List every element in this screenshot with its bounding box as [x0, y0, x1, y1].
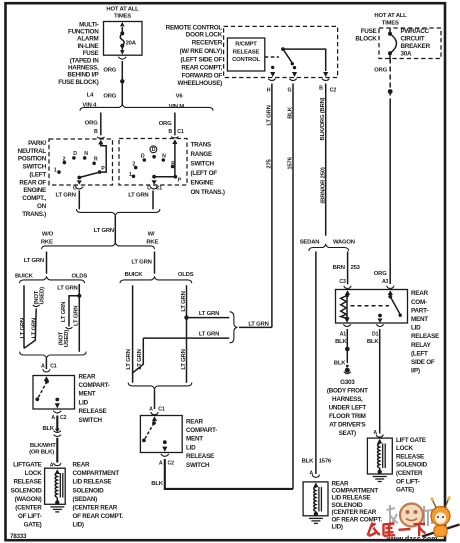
svg-text:W/O: W/O	[42, 232, 54, 238]
svg-text:REAR OF: REAR OF	[19, 179, 46, 186]
svg-text:BLK/ORG (BRN): BLK/ORG (BRN)	[320, 97, 326, 140]
svg-text:L4: L4	[87, 92, 94, 98]
svg-text:FLOOR TRIM: FLOOR TRIM	[329, 413, 366, 420]
TRS switch label	[191, 142, 225, 197]
svg-text:ORG: ORG	[374, 68, 387, 74]
split brace SEDAN/WAGON	[309, 245, 349, 251]
park/neutral position switch box	[49, 139, 113, 185]
svg-text:B: B	[94, 129, 98, 135]
svg-text:TRANS: TRANS	[191, 142, 211, 149]
svg-text:253: 253	[351, 265, 361, 271]
left release switch label	[79, 373, 110, 424]
svg-text:BLK: BLK	[334, 360, 346, 366]
svg-text:BLOCK: BLOCK	[355, 35, 377, 42]
fuse F1 20A	[120, 27, 137, 51]
svg-text:LID): LID)	[73, 522, 84, 529]
wire LT GRN (W/ RKE branch)	[131, 252, 154, 274]
svg-text:FUSE BLOCK): FUSE BLOCK)	[58, 79, 98, 86]
receiver pin connectors	[267, 79, 337, 94]
svg-text:LT GRN: LT GRN	[56, 192, 76, 198]
node HOT AT ALL TIMES (left)	[106, 7, 139, 20]
rear compartment lid release switch box (middle)	[140, 416, 182, 453]
svg-text:SOLENOID: SOLENOID	[396, 462, 428, 469]
ground splice G303	[327, 368, 368, 438]
wire LT GRN olds (middle)	[181, 285, 189, 383]
svg-text:REAR: REAR	[79, 373, 97, 380]
wire LT GRN from TRS	[128, 191, 153, 210]
svg-text:MENT: MENT	[186, 436, 203, 443]
svg-text:30A: 30A	[401, 51, 413, 58]
svg-text:C2: C2	[60, 415, 67, 421]
svg-text:SWITCH: SWITCH	[79, 417, 103, 424]
svg-text:(CENTER REAR: (CENTER REAR	[73, 505, 118, 512]
ground (bottom solenoid)	[309, 518, 323, 523]
svg-text:C2: C2	[330, 87, 337, 93]
pin C3 entry (relay)	[344, 286, 351, 295]
svg-text:BUICK: BUICK	[15, 274, 34, 280]
svg-text:D: D	[141, 154, 145, 160]
svg-text:MENT: MENT	[411, 316, 428, 323]
svg-text:(SEDAN): (SEDAN)	[73, 496, 98, 503]
svg-text:LT GRN: LT GRN	[20, 318, 26, 338]
svg-text:LT GRN: LT GRN	[94, 228, 114, 234]
svg-text:ORG: ORG	[103, 67, 116, 73]
svg-text:BLK/WHT: BLK/WHT	[30, 443, 56, 449]
svg-text:C1: C1	[50, 364, 57, 370]
svg-text:MULTI-: MULTI-	[79, 21, 99, 28]
ground (left solenoid)	[50, 507, 64, 512]
svg-text:RELEASE: RELEASE	[411, 333, 439, 340]
svg-text:V6: V6	[176, 94, 184, 100]
wire ORG to TRS switch	[159, 113, 184, 136]
merge brace to release switch (middle)	[128, 383, 192, 389]
svg-text:ORG: ORG	[374, 271, 387, 277]
svg-text:N: N	[162, 154, 166, 160]
svg-text:C3: C3	[339, 279, 346, 285]
relay label	[411, 290, 439, 374]
svg-text:TRANS.): TRANS.)	[22, 211, 46, 218]
svg-text:OF REAR COMPT.: OF REAR COMPT.	[332, 516, 383, 523]
node W/ RKE	[146, 232, 158, 246]
svg-text:2: 2	[63, 156, 66, 162]
svg-text:(W/ RKE ONLY): (W/ RKE ONLY)	[180, 48, 222, 55]
svg-text:1576: 1576	[319, 459, 332, 465]
pin A (liftgate solenoid)	[373, 430, 383, 444]
svg-text:COMPARTMENT: COMPARTMENT	[332, 488, 379, 495]
svg-text:RELEASE: RELEASE	[14, 479, 42, 486]
wire BLK (middle) to 1576	[151, 459, 293, 489]
solenoid coil (bottom)	[314, 487, 322, 516]
solenoid coil (left)	[55, 473, 63, 505]
lift gate lock release solenoid box	[367, 438, 392, 474]
svg-text:R: R	[94, 157, 98, 163]
wire LT GRN (W/O RKE branch)	[24, 252, 47, 274]
svg-text:FORWARD OF: FORWARD OF	[182, 72, 223, 79]
arrow into fuse box top	[120, 22, 125, 26]
wire inside PNP to P contact	[101, 143, 106, 172]
svg-text:C2: C2	[168, 460, 175, 466]
svg-text:OLDS: OLDS	[72, 274, 88, 280]
svg-text:A1: A1	[340, 331, 347, 337]
watermark stamp (gray characters, drawn as strokes)	[387, 505, 433, 526]
svg-text:REMOTE CONTROL: REMOTE CONTROL	[166, 25, 223, 32]
svg-text:A: A	[51, 415, 55, 421]
svg-text:C1: C1	[177, 129, 184, 135]
svg-text:A: A	[149, 407, 153, 413]
wire LT GRN horizontal lower	[143, 332, 229, 339]
svg-text:ORG: ORG	[103, 94, 116, 100]
watermark red characters (drawn as strokes)	[368, 523, 426, 537]
merge brace of two LT GRN wires	[76, 209, 159, 215]
svg-text:C: C	[147, 185, 151, 191]
node HOT AT ALL TIMES (right)	[374, 13, 407, 26]
svg-text:POSITION: POSITION	[18, 156, 47, 163]
svg-text:AT DRIVER'S: AT DRIVER'S	[329, 422, 365, 429]
split brace L4/V6	[80, 104, 213, 110]
svg-text:B: B	[168, 129, 172, 135]
svg-text:RANGE: RANGE	[191, 151, 213, 158]
wire LT GRN combined	[94, 216, 116, 243]
svg-text:CONTROL: CONTROL	[232, 57, 260, 63]
rear compartment lid release switch box (left)	[33, 376, 75, 410]
svg-text:RKE: RKE	[41, 239, 53, 245]
wire BLK from A1 to ground splice	[334, 329, 350, 367]
rear compartment lid release relay box	[336, 290, 408, 324]
svg-text:C1: C1	[158, 407, 165, 413]
wire ORG dashed from breaker	[374, 59, 393, 285]
svg-text:D1: D1	[372, 331, 379, 337]
svg-text:BLK: BLK	[42, 426, 54, 432]
svg-text:N: N	[84, 151, 88, 157]
wire BLK 1576 from pin G	[287, 84, 293, 489]
svg-text:TIMES: TIMES	[382, 21, 399, 27]
svg-text:NEUTRAL: NEUTRAL	[18, 148, 47, 155]
svg-text:FUNCTION: FUNCTION	[68, 29, 99, 36]
trans range switch box	[119, 139, 187, 186]
svg-text:HOT AT ALL: HOT AT ALL	[374, 13, 407, 19]
pin C exit arrow TRS	[152, 180, 157, 185]
wire BLK from D1 to liftgate solenoid	[379, 329, 381, 434]
svg-text:G303: G303	[340, 379, 355, 386]
svg-text:LID): LID)	[332, 524, 343, 531]
svg-text:SEDAN: SEDAN	[300, 240, 320, 246]
svg-text:LT GRN: LT GRN	[181, 349, 187, 369]
watermark badge circle	[400, 504, 423, 527]
svg-text:LT GRN: LT GRN	[31, 318, 37, 338]
svg-text:LT GRN: LT GRN	[181, 291, 187, 311]
svg-text:SEAT): SEAT)	[339, 430, 356, 437]
svg-text:LT GRN: LT GRN	[24, 258, 44, 264]
connector at fuse box bottom	[120, 50, 125, 54]
relay switch	[378, 295, 402, 318]
inline connector (left)	[54, 429, 61, 437]
svg-text:LT GRN: LT GRN	[199, 311, 219, 317]
wire ORG to PNP switch	[85, 113, 101, 136]
svg-text:LT GRN: LT GRN	[248, 322, 268, 328]
svg-text:SIDE OF: SIDE OF	[411, 359, 435, 366]
svg-text:COMPART-: COMPART-	[186, 427, 217, 434]
svg-text:2: 2	[132, 161, 135, 167]
svg-text:LT GRN: LT GRN	[126, 349, 132, 369]
svg-text:REAR COMPT,: REAR COMPT,	[181, 65, 222, 72]
ground (liftgate solenoid)	[373, 477, 387, 482]
node V6 VIN M	[169, 94, 185, 111]
wire LT GRN from PNP	[56, 191, 80, 210]
svg-text:(LEFT: (LEFT	[29, 171, 46, 178]
wire BLK/WHT (left)	[29, 438, 57, 463]
receiver label	[166, 25, 223, 88]
svg-text:LT GRN: LT GRN	[199, 332, 219, 338]
svg-text:LID: LID	[411, 325, 421, 332]
svg-text:LID: LID	[186, 444, 196, 451]
svg-text:BREAKER: BREAKER	[401, 43, 431, 50]
svg-text:LID RELEASE: LID RELEASE	[332, 495, 371, 502]
svg-text:RKE: RKE	[146, 239, 158, 245]
svg-text:BLK: BLK	[287, 106, 293, 118]
wire WAGON branch BRN 253	[333, 252, 361, 285]
svg-text:SOLENOID: SOLENOID	[73, 487, 105, 494]
svg-text:BUICK: BUICK	[125, 272, 144, 278]
svg-text:RELEASE: RELEASE	[396, 453, 424, 460]
wire LT GRN buick second (middle)	[133, 338, 144, 383]
svg-text:FUSE: FUSE	[83, 50, 99, 57]
svg-text:FUSE: FUSE	[361, 28, 377, 35]
svg-text:www.dzsc.com: www.dzsc.com	[386, 536, 438, 543]
pin A C1 (left release switch)	[41, 359, 57, 382]
svg-text:ENGINE: ENGINE	[191, 180, 214, 187]
left solenoid label (LIFTGATE...)	[11, 462, 43, 529]
svg-text:SWITCH: SWITCH	[23, 164, 47, 171]
svg-text:78333: 78333	[10, 533, 27, 540]
svg-text:HOT AT ALL: HOT AT ALL	[106, 7, 139, 13]
pin B entry arrow PNP	[97, 137, 104, 138]
svg-text:BLK: BLK	[151, 481, 163, 487]
stub not used (left olds)	[58, 296, 79, 347]
wire ORG from fuse	[103, 61, 124, 106]
pin C exit arrow PNP	[77, 180, 82, 184]
liftgate solenoid label	[396, 437, 428, 494]
svg-text:HARNESS,: HARNESS,	[68, 65, 99, 72]
svg-text:OLDS: OLDS	[178, 272, 194, 278]
svg-text:1: 1	[129, 172, 132, 178]
wire LT GRN olds (left)	[57, 284, 81, 352]
svg-text:TIMES: TIMES	[114, 13, 131, 19]
svg-text:USED): USED)	[64, 330, 70, 348]
split brace W/O RKE vs W/ RKE	[42, 243, 155, 249]
svg-text:1: 1	[54, 167, 57, 173]
svg-text:PWR/ACC: PWR/ACC	[401, 28, 430, 35]
svg-text:RECEIVER: RECEIVER	[192, 40, 223, 47]
left solenoid label (REAR COMPARTMENT...)	[73, 462, 124, 529]
svg-text:(WAGON): (WAGON)	[15, 496, 42, 503]
svg-text:C: C	[73, 185, 77, 191]
svg-text:(CENTER REAR: (CENTER REAR	[332, 509, 377, 516]
svg-text:A: A	[41, 364, 45, 370]
PNP switch label	[18, 140, 47, 218]
svg-text:UNDER LEFT: UNDER LEFT	[329, 405, 367, 412]
svg-text:BEHIND I/P: BEHIND I/P	[67, 72, 98, 79]
dashed control line	[265, 56, 279, 58]
svg-text:OF LIFT-: OF LIFT-	[18, 513, 42, 520]
svg-text:PARK/: PARK/	[28, 140, 46, 147]
remote control door lock receiver dashed box	[224, 26, 338, 77]
svg-text:LIFT GATE: LIFT GATE	[396, 437, 426, 444]
svg-text:LIFTGATE: LIFTGATE	[13, 462, 41, 469]
svg-text:(OR BLK): (OR BLK)	[29, 450, 54, 456]
wire LT GRN buick (middle)	[126, 285, 133, 373]
svg-text:(LEFT OF: (LEFT OF	[191, 170, 218, 177]
svg-text:(BODY FRONT: (BODY FRONT	[327, 388, 368, 395]
svg-text:REAR: REAR	[411, 290, 429, 297]
svg-text:(CENTER: (CENTER	[15, 505, 42, 512]
svg-text:SWITCH: SWITCH	[186, 462, 210, 469]
relay coil	[341, 294, 349, 321]
circuit breaker label	[401, 28, 431, 58]
svg-text:LT GRN: LT GRN	[128, 192, 148, 198]
svg-text:SOLENOID: SOLENOID	[11, 487, 43, 494]
pin B entry arrow TRS	[171, 136, 178, 137]
wire from switch common to pin B	[283, 49, 326, 71]
svg-text:CIRCUIT: CIRCUIT	[401, 36, 425, 43]
svg-text:R: R	[171, 161, 175, 167]
svg-text:1576: 1576	[287, 156, 293, 169]
svg-text:ON: ON	[37, 203, 47, 210]
wire LT GRN buick (left)	[20, 285, 26, 348]
wire LT GRN not used stub (left)	[24, 287, 46, 348]
svg-text:LID RELEASE: LID RELEASE	[73, 479, 112, 486]
svg-text:DOOR LOCK: DOOR LOCK	[186, 32, 223, 39]
PNP contacts	[54, 151, 106, 174]
pin A (bottom solenoid)	[309, 471, 319, 488]
svg-text:REAR: REAR	[332, 480, 350, 487]
svg-text:I/P): I/P)	[411, 368, 420, 375]
liftgate/rear lid release solenoid box (left)	[45, 468, 66, 504]
r/cmpt release control box	[227, 38, 264, 71]
svg-text:REAR: REAR	[73, 462, 91, 469]
svg-text:WAGON: WAGON	[333, 240, 355, 246]
split brace BUICK/OLDS (right)	[120, 277, 192, 283]
svg-text:BLK: BLK	[302, 459, 314, 465]
svg-text:(LEFT SIDE OF: (LEFT SIDE OF	[180, 57, 222, 64]
svg-text:LT GRN: LT GRN	[131, 260, 151, 266]
svg-text:C1: C1	[156, 185, 163, 191]
svg-text:ALARM: ALARM	[77, 36, 98, 43]
svg-text:MENT: MENT	[79, 391, 96, 398]
merge brace to release switch (left)	[20, 352, 87, 358]
merge curly brace to receiver	[230, 312, 238, 343]
svg-text:COMPART-: COMPART-	[79, 382, 110, 389]
fuse block label	[355, 28, 377, 42]
svg-text:BRN: BRN	[333, 265, 345, 271]
svg-text:COMPARTMENT: COMPARTMENT	[73, 470, 120, 477]
svg-text:RELAY: RELAY	[411, 342, 432, 349]
svg-text:(LEFT: (LEFT	[411, 350, 428, 357]
svg-text:PART-: PART-	[411, 307, 428, 314]
svg-text:BLK: BLK	[367, 339, 379, 345]
svg-text:ORG: ORG	[159, 121, 172, 127]
svg-text:ENGINE: ENGINE	[23, 187, 46, 194]
pin A3 entry (relay)	[387, 286, 394, 295]
svg-text:COM-: COM-	[411, 299, 427, 306]
svg-text:WHEELHOUSE): WHEELHOUSE)	[178, 80, 223, 87]
svg-text:LOCK: LOCK	[25, 470, 43, 477]
bottom solenoid label	[332, 480, 383, 530]
svg-text:20A: 20A	[126, 40, 137, 46]
wire LT GRN to receiver pin H	[239, 84, 273, 328]
wire BLK (left)	[42, 416, 57, 432]
fuse block dashed box (top right)	[379, 28, 441, 59]
svg-text:B: B	[319, 85, 323, 91]
split brace BUICK/OLDS (left)	[20, 277, 85, 283]
svg-text:BLK: BLK	[335, 339, 347, 345]
TRS contacts	[129, 146, 182, 183]
TRS common contact and arm	[152, 175, 156, 179]
svg-text:A3: A3	[382, 279, 389, 285]
wire BLK/ORG from pin B	[320, 84, 327, 236]
pin D1 exit (relay)	[367, 319, 384, 346]
svg-text:LT GRN: LT GRN	[137, 349, 143, 369]
pin A C1 (middle release switch)	[149, 389, 165, 421]
relay dashed actuating line	[351, 305, 390, 307]
svg-text:LT GRN: LT GRN	[57, 286, 77, 292]
svg-text:W/: W/	[148, 232, 155, 238]
svg-text:ON TRANS.): ON TRANS.)	[191, 189, 225, 196]
watermark mascot	[422, 496, 460, 536]
switch arm (middle release switch)	[142, 421, 167, 452]
wire SEDAN branch BLK 1576	[302, 252, 332, 475]
node W/O RKE	[41, 232, 54, 246]
receiver switch	[270, 47, 297, 77]
svg-text:ORG: ORG	[85, 121, 98, 127]
svg-text:REAR: REAR	[186, 418, 204, 425]
svg-text:LT GRN: LT GRN	[74, 306, 80, 326]
wire inside TRS to P contact	[174, 143, 176, 177]
svg-text:USED): USED)	[40, 287, 46, 305]
svg-text:(CENTER: (CENTER	[396, 470, 423, 477]
wire LT GRN horizontal from olds dot	[187, 311, 230, 317]
svg-text:IN-LINE: IN-LINE	[78, 43, 99, 50]
svg-text:R/CMPT: R/CMPT	[235, 42, 257, 48]
svg-text:LOCK: LOCK	[396, 445, 414, 452]
svg-text:(TAPED IN: (TAPED IN	[70, 57, 99, 64]
svg-text:OF REAR COMPT.: OF REAR COMPT.	[73, 513, 124, 520]
middle release switch label	[186, 418, 217, 469]
svg-text:LT GRN: LT GRN	[61, 302, 67, 322]
solenoid coil (liftgate)	[378, 444, 386, 474]
switch arm (left release switch)	[35, 380, 60, 409]
svg-text:RELEASE: RELEASE	[233, 49, 260, 55]
fuse box outline	[104, 22, 143, 56]
svg-text:G: G	[288, 87, 292, 93]
pin A (left solenoid)	[50, 463, 61, 474]
pin A C2 (left release switch)	[51, 411, 66, 422]
fuse block label (multi-function alarm fuse)	[58, 21, 99, 86]
svg-text:GATE): GATE)	[24, 522, 42, 529]
svg-text:SOLENOID: SOLENOID	[332, 502, 364, 509]
svg-text:OF LIFT-: OF LIFT-	[396, 478, 420, 485]
circuit breaker PWR/ACC 30A	[388, 28, 397, 59]
svg-text:GATE): GATE)	[396, 487, 414, 494]
svg-text:H: H	[267, 87, 271, 93]
svg-text:D: D	[73, 151, 77, 157]
svg-text:275: 275	[267, 158, 273, 168]
pin A C2 (middle release switch)	[159, 454, 174, 466]
svg-text:SWITCH: SWITCH	[191, 161, 215, 168]
svg-text:LID: LID	[79, 399, 89, 406]
svg-text:COMPT.,: COMPT.,	[22, 195, 46, 202]
svg-text:RELEASE: RELEASE	[186, 453, 214, 460]
rear compartment lid release solenoid box (bottom)	[303, 482, 328, 516]
